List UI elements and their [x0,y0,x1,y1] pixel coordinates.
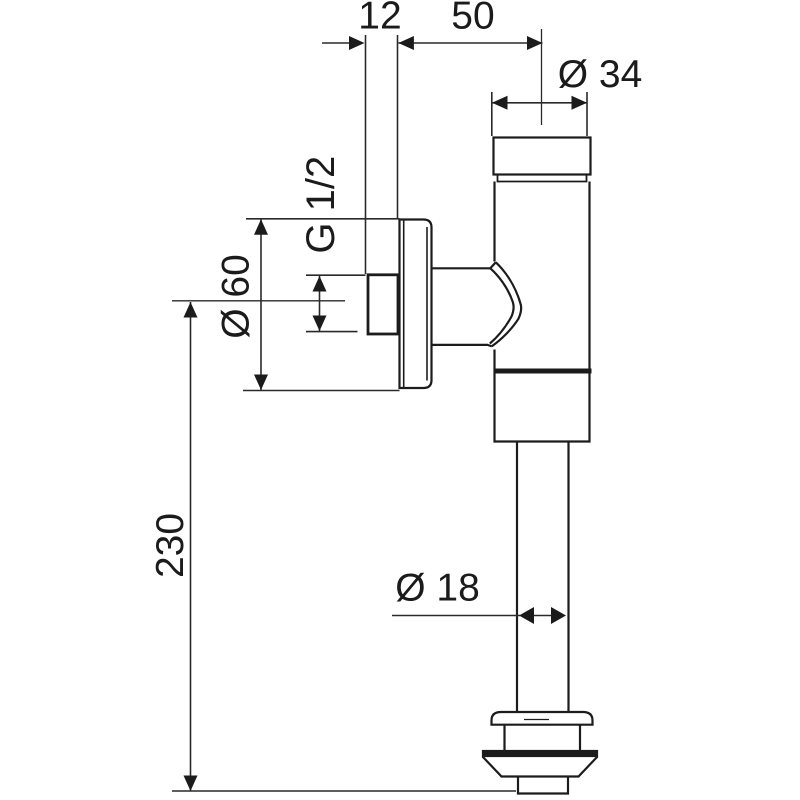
dim 12 arrow tail [322,42,350,44]
svg-text:G 1/2: G 1/2 [299,156,343,254]
valve body [495,182,590,442]
svg-text:12: 12 [358,0,401,38]
dim G12 top extension line [306,274,366,276]
wall flange outline [400,220,432,389]
dim 60 top extension line [246,218,400,220]
dim 60 line [260,219,262,391]
dim 34 right arrowhead [572,96,588,110]
dim G12 arrow shaft [319,276,321,331]
svg-text:Ø 34: Ø 34 [558,53,643,96]
spout bulge inner curve [490,268,514,343]
dim G12 bottom extension line [306,331,358,333]
inlet centerline / dim 230 top extension [172,300,345,302]
spout bulge outer curve [492,262,521,346]
dim 12 arrowhead [349,36,365,50]
dim 230 line [190,302,192,791]
body junction dark band [494,369,592,374]
valve top cap [494,138,591,182]
dim 230 bottom extension line [172,790,516,792]
inlet thread connector G 1/2 [368,275,398,334]
dim 50 left arrowhead [398,36,414,50]
bottom capsule flange [492,712,593,725]
dim 34 left extension line [491,92,493,136]
dim 18 leader line [392,615,520,617]
dim 60 bottom arrowhead [254,375,268,391]
svg-text:Ø 60: Ø 60 [214,254,257,339]
dim 50 line [398,42,542,44]
dim 230 up arrowhead [184,302,198,318]
dim G12 down arrowhead [313,316,327,332]
dim 60 bottom extension line [243,390,400,392]
cone nut top dark band [483,751,598,757]
dim 50 right arrowhead [527,36,543,50]
dim 34 left arrowhead [492,96,508,110]
dim 60 top arrowhead [254,219,268,235]
bottom capsule inner line [524,719,549,721]
inlet pipe bottom line [432,344,489,346]
pipe centerline [541,29,543,125]
svg-text:50: 50 [451,0,494,38]
inlet pipe top line [432,267,491,269]
dim 12 left extension line [365,35,367,274]
dim 18 arrow shaft [533,615,553,617]
bottom plug [518,777,568,794]
dim 34 line [492,102,587,104]
wall flange inner left line [403,220,405,389]
dim 18 left arrowhead [519,607,534,624]
svg-text:Ø 18: Ø 18 [395,566,480,609]
spout bulge top edge [490,262,496,268]
outlet down pipe [517,442,569,713]
dim 18 right arrowhead [551,607,566,624]
dim 230 down arrowhead [184,776,198,792]
cone nut tapered sides [483,757,598,777]
wall flange inner right line [426,227,428,381]
dim G12 up arrowhead [313,276,327,292]
bottom middle cylinder [505,725,581,752]
svg-text:230: 230 [149,513,192,578]
dim 34 right extension line [586,92,588,136]
spout bulge bottom edge [488,345,492,347]
dim 12 right extension line [397,35,399,219]
